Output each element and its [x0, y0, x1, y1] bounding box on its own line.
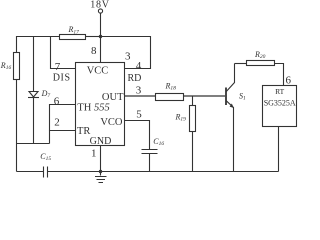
wire node connector — [17, 143, 50, 145]
svg-text:SG3525A: SG3525A — [264, 99, 296, 108]
transistor S1 emitter — [226, 101, 233, 172]
wire D7 branch from rail — [33, 37, 35, 92]
wire R17 left to left column — [17, 37, 60, 53]
svg-text:RD: RD — [128, 73, 142, 84]
wire R18 to transistor base — [184, 95, 226, 97]
svg-text:8: 8 — [91, 45, 97, 57]
wire 18V terminal to rail junction — [100, 13, 102, 36]
svg-text:R17: R17 — [68, 25, 80, 35]
svg-text:5: 5 — [136, 108, 142, 120]
svg-text:TR: TR — [77, 126, 90, 137]
svg-text:6: 6 — [54, 96, 60, 108]
capacitor C16 plates — [142, 150, 158, 154]
diode D7 — [29, 92, 38, 98]
wire R19 bottom to rail — [192, 132, 194, 172]
wire pin6 TH stub — [50, 105, 76, 131]
svg-text:C16: C16 — [153, 137, 164, 147]
wire pin2 TR stub — [50, 131, 76, 144]
svg-text:RT: RT — [275, 87, 285, 96]
svg-text:C15: C15 — [40, 152, 51, 162]
IC U2 SG3525A box — [263, 86, 297, 127]
svg-text:D7: D7 — [41, 89, 51, 99]
svg-text:4: 4 — [136, 60, 142, 72]
svg-text:R18: R18 — [165, 81, 177, 91]
wire R20 right down to SG3525A pin6 — [275, 64, 284, 86]
wire VCC rail right segment to pin4 RD — [101, 37, 151, 69]
capacitor C15 plates — [44, 167, 48, 178]
wire C16 bottom to rail — [149, 154, 151, 172]
svg-text:7: 7 — [55, 61, 61, 73]
wire pin8 VCC — [100, 37, 102, 63]
wire DIS branch pin7 — [51, 37, 76, 69]
junction dot ground — [99, 170, 102, 173]
transistor S1 collector — [226, 64, 234, 92]
wire SG3525A bottom pin to rail — [278, 127, 280, 172]
svg-text:18V: 18V — [90, 0, 110, 11]
resistor R16 body — [14, 53, 20, 80]
resistor R18 body — [156, 94, 184, 101]
IC U1 TH555 box — [76, 63, 125, 146]
svg-text:TH 555: TH 555 — [77, 102, 109, 113]
bottom rail right of C15 — [48, 171, 279, 173]
svg-text:2: 2 — [54, 117, 60, 129]
resistor R17 body — [60, 35, 86, 40]
svg-text:1: 1 — [91, 148, 97, 160]
svg-text:3: 3 — [125, 50, 131, 62]
svg-text:VCC: VCC — [87, 66, 109, 77]
svg-text:6: 6 — [285, 74, 291, 86]
power terminal 18V — [98, 9, 102, 13]
wire pin5 VCO stub — [125, 121, 150, 150]
bottom rail left of C15 — [17, 171, 44, 173]
wire pin1 GND down — [100, 146, 102, 172]
wire pin3 OUT stub — [125, 95, 156, 97]
svg-text:DIS: DIS — [53, 73, 71, 84]
svg-text:S1: S1 — [239, 91, 246, 101]
wire tap down to R19 — [192, 96, 194, 106]
svg-text:GND: GND — [90, 136, 112, 147]
svg-text:R20: R20 — [254, 50, 266, 60]
ground symbol — [95, 172, 107, 183]
wire VCC rail left segment junction to R17 — [86, 36, 101, 38]
svg-text:3: 3 — [136, 85, 142, 97]
svg-text:R16: R16 — [0, 61, 11, 71]
wire R16 bottom down to bottom rail — [16, 80, 18, 172]
svg-text:R19: R19 — [175, 112, 187, 122]
resistor R20 body — [247, 61, 275, 66]
wire D7 cathode down to connector — [33, 98, 35, 144]
wire collector to R20 — [235, 63, 247, 65]
transistor S1 base bar — [225, 88, 227, 106]
junction dot VCC rail — [99, 35, 102, 38]
transistor S1 emitter arrow — [230, 104, 234, 109]
svg-text:VCO: VCO — [100, 117, 123, 128]
resistor R19 body — [190, 106, 196, 132]
